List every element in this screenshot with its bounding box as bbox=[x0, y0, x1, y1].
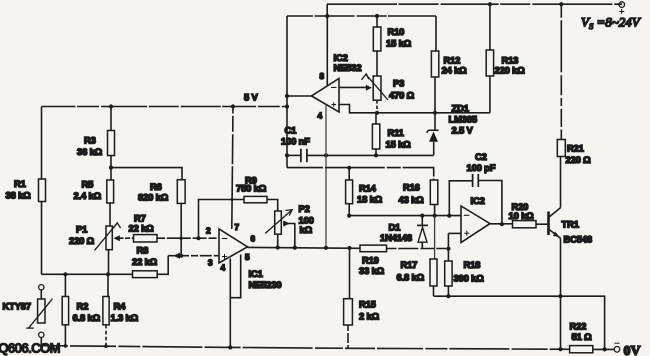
svg-text:220 kΩ: 220 kΩ bbox=[495, 65, 526, 76]
wire emitter down bbox=[560, 238, 562, 349]
svg-text:1N4148: 1N4148 bbox=[380, 232, 412, 243]
junction bbox=[104, 344, 108, 348]
junction bbox=[324, 246, 328, 250]
op-amp U-IC1 NE5230 bbox=[219, 229, 248, 263]
svg-text:R18: R18 bbox=[464, 259, 481, 270]
wire IC2a pin4 down to IC1 output node bbox=[325, 106, 327, 248]
svg-text:36 kΩ: 36 kΩ bbox=[77, 146, 103, 157]
junction bbox=[109, 166, 113, 170]
wire R17 tap from inverting node bbox=[434, 216, 436, 259]
svg-text:22 kΩ: 22 kΩ bbox=[129, 223, 155, 234]
resistor R19 bbox=[360, 245, 387, 252]
svg-text:R5: R5 bbox=[82, 179, 94, 190]
wire left vertical from sub-rail to IC2a output / 5V bbox=[286, 16, 288, 168]
wire top supply rail Vs bbox=[327, 3, 622, 5]
sensor KTY87 bbox=[39, 285, 44, 290]
svg-text:R8: R8 bbox=[137, 245, 149, 256]
svg-text:R1: R1 bbox=[14, 178, 26, 189]
svg-text:R16: R16 bbox=[403, 182, 420, 193]
svg-text:R14: R14 bbox=[359, 183, 377, 194]
resistor R11 bbox=[375, 113, 377, 124]
svg-text:C1: C1 bbox=[285, 125, 297, 136]
svg-text:P3: P3 bbox=[393, 78, 404, 89]
junction bbox=[347, 166, 351, 170]
svg-text:R21: R21 bbox=[567, 143, 584, 154]
capacitor C1 bbox=[287, 154, 301, 156]
resistor R3 bbox=[110, 107, 112, 131]
svg-text:R6: R6 bbox=[150, 181, 162, 192]
svg-text:24 kΩ: 24 kΩ bbox=[442, 65, 468, 76]
resistor R12 bbox=[435, 16, 437, 51]
wire 5V branch line to R14 R16 bbox=[287, 168, 434, 180]
svg-text:C2: C2 bbox=[475, 151, 487, 162]
svg-text:kΩ: kΩ bbox=[300, 224, 313, 235]
svg-text:R11: R11 bbox=[388, 127, 404, 138]
svg-text:R2: R2 bbox=[77, 301, 89, 312]
svg-text:220 Ω: 220 Ω bbox=[69, 235, 95, 246]
svg-text:43 kΩ: 43 kΩ bbox=[399, 194, 425, 205]
wire emitter sense line bbox=[434, 296, 605, 349]
resistor R4 bbox=[107, 274, 109, 296]
junction R6 to pin3 bbox=[179, 254, 183, 258]
resistor R9 bbox=[199, 200, 245, 239]
svg-text:R17: R17 bbox=[401, 259, 418, 270]
junction bbox=[63, 272, 67, 276]
terminal 0V bbox=[614, 347, 620, 353]
resistor R17 bbox=[430, 259, 437, 286]
svg-text:820 kΩ: 820 kΩ bbox=[138, 192, 169, 203]
svg-text:22 kΩ: 22 kΩ bbox=[132, 256, 158, 267]
svg-text:IC2: IC2 bbox=[471, 195, 485, 206]
svg-text:LM385: LM385 bbox=[449, 114, 477, 125]
svg-text:R22: R22 bbox=[570, 321, 587, 332]
junction R6 cross bbox=[180, 237, 183, 240]
wire sub-rail y16 bbox=[287, 15, 436, 17]
svg-text:D1: D1 bbox=[389, 222, 401, 233]
trimmer P2 bbox=[275, 211, 282, 234]
wire bridge mid rail bbox=[42, 273, 133, 275]
resistor R22 bbox=[570, 346, 593, 353]
svg-text:NE5230: NE5230 bbox=[249, 279, 282, 290]
resistor R20 bbox=[513, 221, 537, 228]
svg-text:4: 4 bbox=[318, 112, 323, 121]
trimmer P1 bbox=[106, 226, 112, 250]
svg-text:KTY87: KTY87 bbox=[3, 301, 31, 312]
junction bbox=[375, 111, 379, 115]
svg-text:6.8 kΩ: 6.8 kΩ bbox=[73, 312, 101, 323]
svg-text:R3: R3 bbox=[84, 135, 96, 146]
zener ZD1 LM385 bbox=[434, 113, 436, 130]
junction bbox=[231, 104, 235, 108]
svg-text:4: 4 bbox=[221, 264, 226, 273]
svg-text:1.3 kΩ: 1.3 kΩ bbox=[111, 312, 139, 323]
junction bbox=[324, 153, 328, 157]
svg-text:7: 7 bbox=[235, 223, 240, 232]
resistor R21 bbox=[557, 140, 565, 157]
svg-text:51 Ω: 51 Ω bbox=[572, 331, 593, 342]
resistor R10 bbox=[376, 16, 378, 27]
svg-text:10 kΩ: 10 kΩ bbox=[509, 210, 535, 221]
svg-text:P1: P1 bbox=[76, 224, 87, 235]
svg-text:BC548: BC548 bbox=[564, 234, 592, 245]
resistor R5 bbox=[107, 180, 114, 203]
wire IC2b + input step bbox=[448, 232, 461, 234]
svg-text:15 kΩ: 15 kΩ bbox=[386, 38, 412, 49]
junction bbox=[285, 104, 289, 108]
wire IC1 output line bbox=[248, 246, 361, 249]
junction blob crossing bbox=[231, 198, 234, 201]
svg-text:P2: P2 bbox=[299, 203, 310, 214]
svg-text:100 pF: 100 pF bbox=[467, 162, 496, 173]
resistor R16 bbox=[430, 180, 438, 205]
wire to IC1 pin3 bbox=[168, 255, 219, 257]
wire pin8 supply bbox=[326, 16, 328, 86]
junction bbox=[106, 272, 110, 276]
junction bbox=[433, 214, 437, 218]
junction bbox=[433, 111, 437, 115]
trimmer P3 bbox=[376, 51, 378, 76]
terminal Vs bbox=[619, 2, 625, 8]
svg-text:33 kΩ: 33 kΩ bbox=[359, 265, 385, 276]
svg-text:Q606.COM: Q606.COM bbox=[0, 341, 60, 356]
svg-text:2.4 kΩ: 2.4 kΩ bbox=[74, 190, 102, 201]
junction bbox=[64, 344, 68, 348]
svg-text:2: 2 bbox=[206, 227, 211, 236]
junction R9 tap bbox=[196, 236, 200, 240]
wire ground rail bbox=[38, 346, 570, 350]
resistor R14 bbox=[348, 168, 350, 180]
svg-text:0V: 0V bbox=[624, 344, 641, 356]
svg-text:5: 5 bbox=[245, 253, 250, 262]
svg-text:2 kΩ: 2 kΩ bbox=[359, 311, 380, 322]
svg-text:R10: R10 bbox=[388, 26, 405, 37]
svg-text:IC1: IC1 bbox=[249, 268, 263, 279]
svg-text:2.5 V: 2.5 V bbox=[452, 125, 474, 136]
junction bbox=[285, 153, 289, 157]
svg-text:VS =8~24V: VS =8~24V bbox=[581, 15, 642, 32]
op-amp U-IC2a NE532 bbox=[312, 79, 340, 113]
wire IC2b output bbox=[490, 223, 513, 225]
wire IC2b inverting input line bbox=[349, 215, 461, 217]
junction bbox=[375, 14, 379, 18]
svg-text:470 Ω: 470 Ω bbox=[389, 90, 415, 101]
junction bbox=[325, 14, 329, 18]
resistor R1 bbox=[41, 107, 43, 180]
svg-text:100 nF: 100 nF bbox=[281, 136, 310, 147]
resistor R6 bbox=[177, 180, 185, 204]
wire 5V rail bbox=[42, 106, 288, 108]
resistor R2 bbox=[64, 274, 66, 296]
svg-text:38 kΩ: 38 kΩ bbox=[6, 190, 32, 201]
svg-text:6.8 kΩ: 6.8 kΩ bbox=[397, 272, 425, 283]
resistor R15 bbox=[349, 248, 351, 299]
svg-text:3: 3 bbox=[208, 259, 213, 268]
junction bbox=[276, 245, 280, 249]
svg-text:R4: R4 bbox=[114, 301, 127, 312]
resistor R8 bbox=[133, 271, 158, 278]
svg-text:390 kΩ: 390 kΩ bbox=[454, 273, 485, 284]
svg-text:220 Ω: 220 Ω bbox=[566, 154, 592, 165]
resistor R7 bbox=[113, 235, 119, 241]
wire IC1 pin4/5 to ground rail bbox=[229, 259, 231, 348]
wire IC1 pin7 to 5V bbox=[232, 107, 233, 230]
wire collector bbox=[560, 157, 562, 208]
svg-text:R19: R19 bbox=[362, 255, 379, 266]
wire IC2a + input line bbox=[339, 105, 490, 113]
junction bbox=[374, 153, 378, 157]
svg-text:TR1: TR1 bbox=[562, 219, 579, 230]
diode D1 1N4148 bbox=[421, 216, 423, 225]
wire P2 wiper to output bbox=[283, 221, 290, 227]
svg-text:6: 6 bbox=[251, 235, 256, 244]
resistor R18 bbox=[447, 233, 449, 261]
junction bbox=[109, 104, 113, 108]
svg-text:ZD1: ZD1 bbox=[452, 103, 469, 114]
junction bbox=[347, 246, 351, 250]
svg-text:NE532: NE532 bbox=[334, 62, 362, 73]
svg-text:5 V: 5 V bbox=[244, 92, 259, 103]
svg-text:8: 8 bbox=[320, 72, 325, 81]
op-amp U-IC2b NE532 bbox=[461, 206, 490, 243]
resistor R13 bbox=[489, 4, 491, 50]
svg-text:750 kΩ: 750 kΩ bbox=[236, 183, 267, 194]
svg-text:18 kΩ: 18 kΩ bbox=[357, 194, 383, 205]
wire IC2a inverting input to P3 wiper bbox=[339, 86, 366, 88]
junction bbox=[285, 94, 289, 98]
svg-text:15 kΩ: 15 kΩ bbox=[386, 139, 412, 150]
transistor Q-TR1 BC548 bbox=[547, 212, 550, 236]
wire drop from rail to sub-rail bbox=[326, 4, 328, 16]
svg-text:R15: R15 bbox=[359, 299, 376, 310]
junction bbox=[293, 246, 297, 250]
capacitor C2 bbox=[449, 181, 472, 216]
wire R3 bottom to R6 bbox=[111, 168, 182, 180]
